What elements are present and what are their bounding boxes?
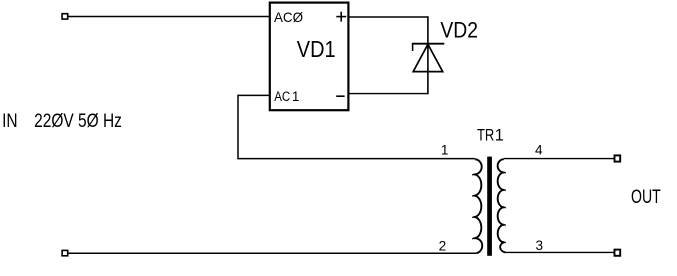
svg-text:AC: AC [274, 89, 290, 104]
svg-text:ACØ: ACØ [274, 10, 303, 25]
wire - output to diode bottom [348, 93, 428, 95]
transformer TR1 primary winding [474, 159, 482, 253]
transformer core [487, 157, 492, 256]
terminal OUT top-right [615, 155, 621, 161]
diode VD2 (zener) [412, 44, 444, 72]
svg-text:3: 3 [536, 238, 544, 253]
primary cusp ticks [472, 174, 474, 239]
wire top input to AC0 [68, 16, 270, 18]
svg-text:OUT: OUT [631, 187, 661, 208]
svg-text:TR: TR [477, 127, 494, 145]
wire diode vertical [427, 16, 429, 94]
svg-text:4: 4 [535, 143, 543, 158]
svg-text:1: 1 [441, 143, 449, 158]
pin label minus [336, 95, 344, 97]
terminal IN top-left [62, 14, 68, 19]
svg-text:2: 2 [439, 238, 447, 253]
wire pin4 to OUT terminal [504, 158, 614, 160]
wire AC1 to transformer pin 1 [238, 95, 475, 158]
svg-text:VD1: VD1 [297, 36, 336, 62]
secondary cusp ticks [504, 172, 506, 243]
transformer TR1 secondary winding [498, 159, 506, 252]
svg-text:1: 1 [495, 127, 504, 145]
terminal OUT bottom-right [615, 250, 621, 256]
bridge rectifier U=VD1 box [270, 3, 349, 111]
pin label + [336, 12, 346, 22]
wire + output to diode [348, 16, 428, 18]
svg-text:1: 1 [292, 89, 300, 104]
wire pin2 long bottom [68, 252, 476, 254]
terminal bottom-left [62, 250, 68, 255]
svg-text:IN: IN [2, 111, 18, 132]
svg-text:22ØV 5Ø Hz: 22ØV 5Ø Hz [34, 111, 122, 132]
wire pin3 to OUT terminal [505, 251, 614, 253]
svg-text:VD2: VD2 [440, 18, 478, 43]
